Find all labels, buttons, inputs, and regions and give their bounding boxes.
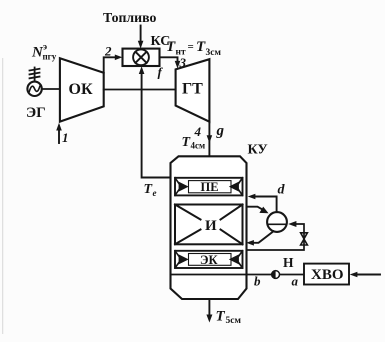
svg-text:4см: 4см [191,141,206,151]
label Te [144,182,157,198]
wire stack exhaust T5sm [206,299,212,323]
svg-text:Н: Н [283,255,294,270]
svg-text:f: f [158,65,164,80]
svg-text:1: 1 [62,130,69,145]
svg-text:Т: Т [166,39,176,55]
svg-text:ЭК: ЭК [200,253,218,267]
gas turbine GT [176,59,210,121]
svg-text:g: g [216,123,225,139]
svg-text:пгу: пгу [43,52,57,62]
svg-text:ЭГ: ЭГ [26,105,46,121]
svg-text:Т: Т [196,39,206,55]
wire air inlet arrow 1 [56,123,62,143]
svg-text:3см: 3см [206,48,222,58]
wire turbine exhaust g into boiler [207,122,213,157]
wire riser evaporator to drum [247,207,269,214]
svg-text:d: d [278,183,286,198]
wire compressor outlet 2 to KS [104,55,123,73]
steam drum circle [267,212,287,232]
wire feedwater line from HVO through pump into boiler [171,274,305,276]
svg-text:Т: Т [216,309,226,325]
superheater PE section [175,178,243,196]
label T4sm [182,135,206,151]
wire shaft generator to compressor [42,88,60,90]
pump N [272,271,280,279]
wire shaft compressor to turbine [104,89,176,91]
svg-text:КУ: КУ [248,143,268,158]
svg-text:ХВО: ХВО [311,267,344,283]
wire fuel arrow into KS [138,26,144,49]
network connection symbol above generator [30,68,40,83]
wire raw water inlet arrow into HVO [350,272,380,278]
valve [301,233,308,245]
svg-text:4: 4 [194,124,202,139]
evaporator I section [175,205,243,245]
generator EG circle with sine wave [27,82,41,96]
label T5sm [216,309,242,327]
label Tnt = T3sm [166,39,221,58]
svg-text:2: 2 [104,44,112,59]
svg-text:a: a [292,274,299,289]
waste heat boiler KU outline [171,156,247,299]
wire KS outlet to turbine with arrow 3 [160,57,181,68]
svg-text:5см: 5см [226,316,242,326]
wire steam injection line e from boiler to KS [139,66,171,177]
scan artifact left edge [2,58,3,334]
water treatment HVO box [304,264,349,285]
svg-text:Топливо: Топливо [103,10,156,25]
svg-text:=: = [188,41,194,53]
combustion chamber KS box [123,49,160,66]
svg-text:ОК: ОК [69,81,93,98]
svg-text:И: И [205,218,217,234]
label N_pgu electrical output [31,43,57,62]
svg-text:е: е [153,188,157,198]
combustion chamber mixer circle with X [133,49,149,65]
compressor OK [60,58,104,121]
wire downcomer drum to evaporator [246,231,273,245]
svg-text:b: b [254,274,261,289]
svg-text:ПЕ: ПЕ [201,180,219,194]
svg-text:ГТ: ГТ [182,81,203,98]
economizer EK section [175,251,243,268]
wire steam d from drum to superheater [248,194,277,212]
wire economizer outlet through valve into drum [247,221,305,250]
